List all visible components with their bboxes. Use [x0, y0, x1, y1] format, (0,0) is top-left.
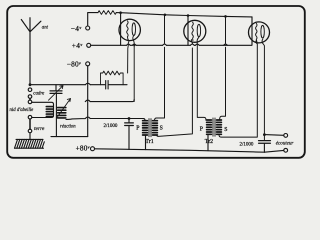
capacitor variable tuning C2: [49, 85, 64, 101]
svg-text:2/1000: 2/1000: [104, 124, 118, 129]
wire filament riser tube2: [187, 16, 189, 46]
wire Tr1 P bottom lead: [145, 135, 147, 149]
wire reaction bottom to Tr1: [66, 117, 143, 119]
terminal terre: [28, 129, 32, 133]
terminal -80v: [86, 62, 90, 66]
wire -80 rail: [51, 136, 88, 138]
svg-text:Tr1: Tr1: [145, 139, 153, 145]
wire to ground: [29, 133, 31, 139]
wire: [29, 98, 31, 100]
wire hop over -80 line: [85, 83, 90, 85]
terminal cadre lower: [28, 95, 32, 99]
terminal coil lower: [28, 115, 32, 119]
wire cap1 leads: [128, 119, 130, 150]
tube V2 plate loop: [197, 24, 200, 37]
wire Tr2 S bottom to tube3 grid: [219, 41, 257, 137]
capacitor C4 2/1000: [259, 141, 271, 144]
wire hops on +4 bus: [127, 44, 200, 45]
transformer Tr1 secondary: [153, 121, 158, 135]
tube V3 grid: [256, 23, 257, 42]
terminal +4v: [87, 43, 91, 47]
wire: [29, 119, 31, 129]
tube V2 envelope: [184, 20, 206, 42]
wire plate lead tube2: [197, 38, 206, 121]
transformer Tr2 core: [213, 118, 215, 136]
svg-text:cadre: cadre: [33, 91, 45, 96]
wire riser -4: [88, 13, 98, 26]
tube V1 envelope: [119, 19, 140, 40]
wire: [109, 84, 127, 86]
terminal ecouteur top: [284, 134, 288, 138]
arrow reaction: [57, 99, 71, 118]
svg-text:P: P: [136, 125, 139, 131]
wire +80 bottom bus: [95, 149, 265, 152]
capacitor C3 2/1000: [125, 123, 134, 126]
tube V3 plate loop: [261, 25, 264, 38]
wire grid lead tube1: [128, 40, 129, 74]
svg-text:ant: ant: [42, 25, 49, 30]
svg-text:S: S: [160, 126, 163, 132]
svg-text:+80v: +80v: [76, 144, 90, 153]
terminal coil upper: [28, 100, 32, 104]
wire Tr2 P bottom lead: [207, 135, 209, 151]
transformer Tr1 primary: [143, 121, 148, 135]
wire ecouteur bottom: [264, 150, 283, 152]
wire ecouteur top: [264, 134, 283, 137]
wire reaction rail: [55, 94, 57, 137]
wire filament riser tube1: [120, 13, 122, 46]
resistor grid leak R2: [101, 71, 124, 85]
svg-text:écouteur: écouteur: [276, 141, 294, 146]
ground earth symbol: [15, 139, 45, 148]
transformer Tr2 secondary: [217, 120, 222, 134]
node antenna junction: [29, 83, 32, 86]
transformer Tr2 primary: [207, 120, 212, 134]
wire plate lead tube3: [262, 39, 264, 140]
svg-text:2/1000: 2/1000: [240, 142, 254, 147]
wire top bus: [116, 13, 252, 17]
tube V1 grid: [127, 21, 128, 40]
svg-text:Tr2: Tr2: [205, 139, 213, 145]
svg-text:S: S: [224, 127, 227, 133]
wire plate to reaction: [85, 100, 134, 102]
coil reaction L2: [58, 108, 66, 118]
resistor rheostat R1: [98, 11, 116, 15]
terminal +80v: [91, 147, 95, 151]
wire cap2 bottom lead: [263, 144, 265, 153]
tube V2 grid: [192, 22, 193, 40]
node junction cap1: [128, 117, 131, 120]
capacitor grid condenser C1: [106, 81, 108, 90]
coil nid d'abeille L1: [46, 107, 53, 117]
wire -80 drop: [87, 66, 89, 137]
border frame: [7, 6, 305, 158]
terminal -4v: [86, 26, 90, 30]
antenna: [21, 18, 41, 85]
svg-text:terre: terre: [34, 126, 45, 132]
node junction ecouteur top: [263, 133, 266, 136]
svg-text:réaction: réaction: [60, 124, 76, 129]
wire +4 bus: [91, 44, 252, 46]
svg-text:P: P: [200, 126, 203, 132]
wire tuned-circuit top y84.5: [31, 84, 105, 86]
node plate crossing blob: [133, 44, 135, 46]
svg-text:nid d'abeille: nid d'abeille: [10, 108, 35, 113]
node dots on top bus: [119, 11, 122, 14]
wire +4 bus right end riser: [251, 17, 253, 45]
wire Tr1 S top to top bus: [155, 15, 165, 121]
terminal ecouteur bottom: [284, 148, 288, 152]
transformer Tr1 core: [149, 119, 151, 137]
wire Tr1 P top lead: [143, 119, 145, 121]
wire Tr1 S bottom to tube2 grid: [157, 40, 193, 137]
tube V1 plate loop: [132, 23, 135, 36]
wire coil top: [32, 102, 54, 117]
terminal cadre upper: [28, 88, 32, 92]
tube V3 envelope: [249, 22, 270, 43]
svg-text:−80v: −80v: [67, 60, 81, 69]
wire Tr2 S top to top bus: [220, 16, 226, 119]
wire plate lead tube1: [133, 36, 134, 102]
